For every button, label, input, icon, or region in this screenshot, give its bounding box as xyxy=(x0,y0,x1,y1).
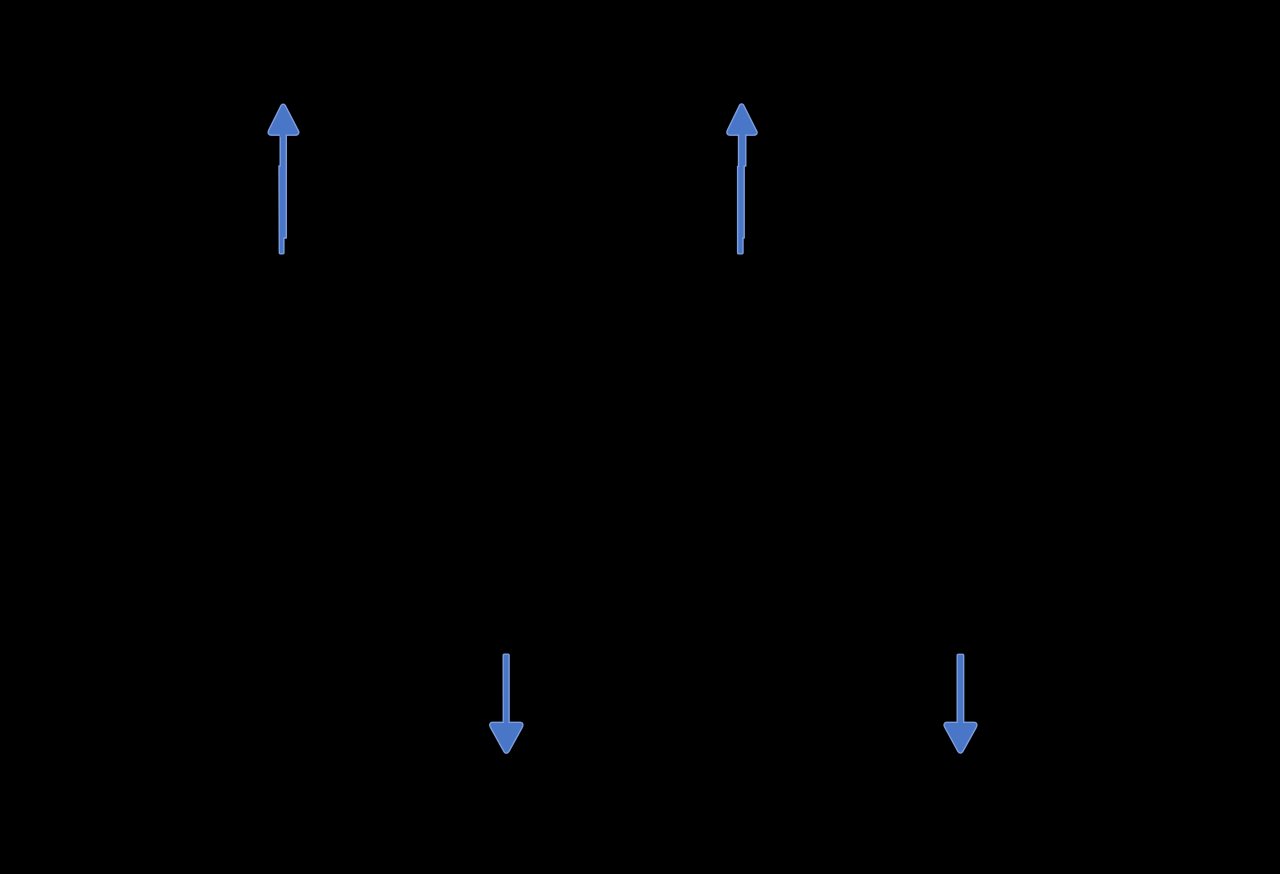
up arrow 1 shaft xyxy=(279,134,286,254)
down arrow 1 shaft xyxy=(503,654,509,724)
up arrow 2 head/shaft joint patch xyxy=(739,133,745,137)
up arrow 1 head/shaft joint patch xyxy=(280,133,286,137)
down arrow 2 (bottom-right) xyxy=(944,654,977,753)
down arrow 1 head xyxy=(490,722,523,753)
down arrow 2 head/shaft joint patch xyxy=(958,721,963,726)
down arrow 2 head xyxy=(944,722,977,753)
up arrow 2 shaft xyxy=(738,134,746,254)
up arrow 1 head xyxy=(268,104,299,135)
up arrow 2 (top-right) xyxy=(727,104,757,254)
up arrow 1 (top-left) xyxy=(268,104,299,254)
down arrow 2 shaft xyxy=(957,654,964,724)
down arrow 1 (bottom-middle-left) xyxy=(490,654,523,753)
down arrow 1 head/shaft joint patch xyxy=(504,721,509,726)
up arrow 2 head xyxy=(727,104,757,135)
